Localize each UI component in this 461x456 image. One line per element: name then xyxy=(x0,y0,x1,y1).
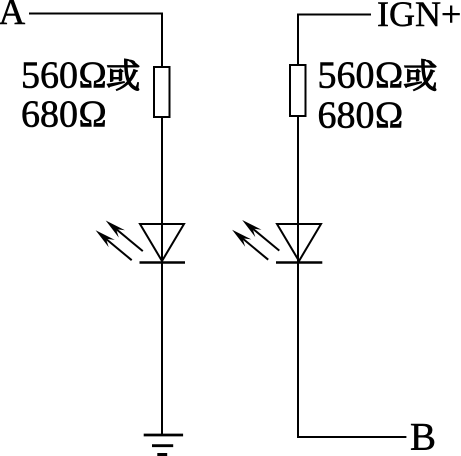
LED D2 xyxy=(232,220,322,263)
wire: right vertical from corner down to resistor R2 top xyxy=(297,14,299,67)
wire: resistor R2 bottom to LED D2 anode xyxy=(297,116,299,262)
svg-text:560Ω: 560Ω xyxy=(21,55,107,97)
resistor R1 xyxy=(154,67,170,117)
wire from node A to left branch corner xyxy=(29,13,163,15)
LED D1 xyxy=(96,221,185,263)
svg-text:IGN+: IGN+ xyxy=(377,0,461,34)
resistor R2 xyxy=(290,65,306,116)
value label for R1: 560ohm or 680ohm xyxy=(21,55,139,136)
wire: LED D1 cathode down to ground xyxy=(161,262,163,435)
value label for R2: 560ohm or 680ohm xyxy=(318,55,436,137)
wire: resistor R1 bottom to LED D1 anode xyxy=(161,117,163,262)
svg-text:680Ω: 680Ω xyxy=(318,95,404,137)
wire: LED D2 cathode down to bottom corner xyxy=(297,262,299,438)
svg-text:680Ω: 680Ω xyxy=(21,94,107,136)
ground xyxy=(144,435,183,455)
wire: left vertical from corner down to resistor R1 top xyxy=(161,13,163,69)
wire from right branch corner to node IGN+ xyxy=(297,14,371,16)
svg-text:560Ω: 560Ω xyxy=(318,55,404,97)
svg-text:A: A xyxy=(0,0,26,33)
svg-text:B: B xyxy=(410,416,436,456)
wire: bottom horizontal to node B xyxy=(297,436,406,438)
